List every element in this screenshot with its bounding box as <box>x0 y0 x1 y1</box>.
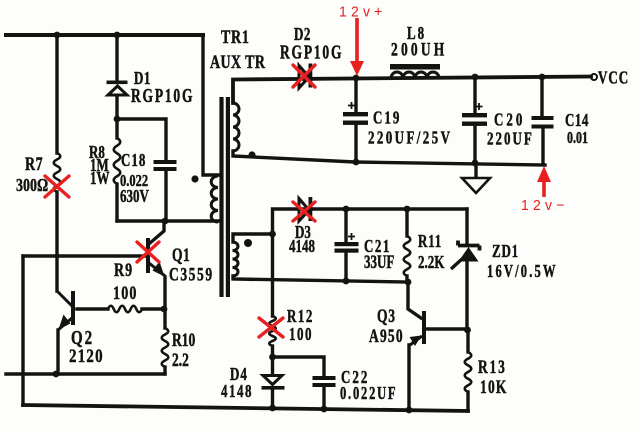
diode D2 RGP10G <box>299 64 312 89</box>
wire Q1 base line <box>23 254 146 257</box>
wire Q3 emitter down <box>407 345 410 410</box>
wire C19 bottom leg <box>354 125 357 161</box>
wire secondary1 top lead / 12V rail <box>233 77 591 104</box>
node C18 / primary bottom / Q1 collector <box>162 218 169 225</box>
svg-text:630V: 630V <box>120 187 149 206</box>
transistor Q1 C3559 <box>148 238 165 277</box>
resistor R8 1M 1W <box>114 138 121 184</box>
wire C21 top leg <box>344 209 347 242</box>
red arrow 12v- <box>537 166 551 197</box>
wire bottom rail <box>23 405 468 411</box>
node Q3 emitter rail <box>406 407 413 414</box>
wire D1 branch top <box>115 35 118 80</box>
transformer TR1 core <box>219 97 230 297</box>
wire Q3 base line <box>427 327 467 330</box>
wire C20 bottom leg <box>473 126 476 164</box>
node C20 top <box>472 74 479 81</box>
node R11 top <box>404 206 411 213</box>
red arrow 12v+ <box>350 18 364 76</box>
wire Q2 emitter down <box>56 330 59 374</box>
ground symbol <box>462 178 490 193</box>
svg-text:4148: 4148 <box>289 237 315 256</box>
node C14 top <box>539 74 546 81</box>
red X mark on D3 <box>293 202 315 221</box>
svg-text:AUX TR: AUX TR <box>210 51 266 73</box>
wire R7 branch top <box>55 35 58 153</box>
capacitor C18 0.022 630V <box>154 160 177 171</box>
svg-text:R9: R9 <box>114 259 133 281</box>
inductor L8 200UH <box>391 72 439 78</box>
svg-text:R7: R7 <box>25 153 43 175</box>
svg-text:10K: 10K <box>480 377 508 398</box>
svg-text:C3559: C3559 <box>169 263 214 285</box>
node top rail / R7 <box>54 32 61 39</box>
zener diode ZD1 16V/0.5W <box>451 241 480 270</box>
svg-text:ZD1: ZD1 <box>492 242 519 261</box>
wire R10 bottom <box>163 367 166 374</box>
wire D1 to junction <box>115 96 118 138</box>
wire top rail <box>6 33 203 37</box>
svg-text:C19: C19 <box>373 109 401 128</box>
svg-text:220UF: 220UF <box>487 130 534 150</box>
svg-text:100: 100 <box>289 325 313 344</box>
node Q2 emitter / rail <box>53 371 60 378</box>
wire R11 bottom leg <box>405 276 408 281</box>
wire C19 top leg <box>354 78 357 112</box>
node 12v+ junction <box>353 75 360 82</box>
resistor R13 10K <box>465 352 472 392</box>
svg-text:0.022UF: 0.022UF <box>340 384 397 404</box>
wire secondary1 bottom lead <box>233 151 545 165</box>
svg-text:TR1: TR1 <box>221 26 250 48</box>
wire mid vertical to R12 <box>271 234 274 316</box>
wire primary bottom lead <box>117 219 218 222</box>
transistor Q3 A950 <box>410 311 425 346</box>
wire ZD1 to base node <box>465 262 468 330</box>
resistor R9 100 <box>108 306 142 313</box>
svg-text:2120: 2120 <box>69 345 104 366</box>
wire C21 bottom leg <box>344 252 347 281</box>
wire C22 top leg <box>273 357 325 376</box>
transformer TR1 primary winding <box>211 176 218 222</box>
resistor R11 2.2K <box>404 236 411 276</box>
node R11 bottom / Q3 collector <box>405 279 412 286</box>
node D4 bottom rail <box>269 405 276 412</box>
svg-text:C20: C20 <box>494 111 525 131</box>
node C21 bottom <box>343 278 350 285</box>
node R9 / Q1 emitter <box>161 306 168 313</box>
node secondary2 phase dot <box>244 239 252 247</box>
svg-text:2.2K: 2.2K <box>418 253 445 272</box>
svg-text:33UF: 33UF <box>364 253 394 273</box>
svg-text:220UF/25V: 220UF/25V <box>368 129 452 149</box>
svg-text:4148: 4148 <box>221 382 253 401</box>
svg-text:1W: 1W <box>90 169 110 188</box>
svg-text:2.2: 2.2 <box>172 350 189 371</box>
red X mark on R7 <box>45 176 69 197</box>
svg-text:RGP10G: RGP10G <box>131 84 194 106</box>
diode D3 4148 <box>299 197 312 221</box>
diode D4 4148 <box>262 376 285 390</box>
node C19 bottom <box>353 159 360 166</box>
svg-text:C18: C18 <box>121 151 146 170</box>
wire node to R13 <box>466 330 469 352</box>
wire C22 bottom leg <box>322 387 325 408</box>
capacitor C19 220UF/25V <box>343 102 368 125</box>
transistor Q2 2120 <box>57 291 73 330</box>
wire C18 top leg <box>117 119 166 160</box>
node secondary1 phase dot <box>248 151 255 158</box>
wire C18 bottom leg <box>164 171 167 221</box>
svg-text:C14: C14 <box>565 111 589 130</box>
wire R9 to Q1 emitter line <box>142 307 165 310</box>
wire Q1 collector <box>150 221 164 243</box>
node C21 top <box>343 206 350 213</box>
wire Q2 emitter line <box>6 372 165 375</box>
svg-text:R13: R13 <box>478 357 507 378</box>
node primary phase dot <box>191 175 198 182</box>
wire Q3 collector <box>408 282 421 318</box>
wire Q1 emitter to R10 <box>163 277 166 328</box>
resistor R10 2.2 <box>162 328 169 367</box>
transformer TR1 secondary winding 1 <box>233 103 239 151</box>
wire R8 bottom <box>115 184 118 221</box>
node D1 / R8 / C18 <box>114 116 121 123</box>
svg-text:R10: R10 <box>172 330 195 351</box>
node Q3 base / ZD1 / R13 <box>464 327 471 334</box>
resistor R7 300ohm <box>54 153 61 192</box>
node R12 / D4 / C22 <box>269 354 276 361</box>
svg-text:12v+: 12v+ <box>339 4 387 20</box>
svg-text:Q3: Q3 <box>377 306 396 327</box>
svg-text:0.01: 0.01 <box>567 129 588 147</box>
red X mark on R12 <box>259 318 283 337</box>
svg-text:16V/0.5W: 16V/0.5W <box>487 262 558 282</box>
wire C14 top leg <box>540 77 543 116</box>
wire R11 top leg <box>405 209 408 236</box>
wire D4 bottom <box>271 389 274 408</box>
capacitor C14 0.01 <box>532 116 554 129</box>
wire R13 bottom <box>466 392 469 411</box>
wire ground stem <box>474 164 477 177</box>
svg-text:RGP10G: RGP10G <box>280 41 343 63</box>
wire D3 rail <box>273 209 468 234</box>
wire left vertical <box>21 256 24 405</box>
wire secondary2 top lead <box>233 234 273 242</box>
node C22 bottom rail <box>321 406 328 413</box>
svg-text:A950: A950 <box>369 326 404 347</box>
inductor L8 core bar <box>390 64 440 70</box>
svg-text:VCC: VCC <box>598 69 629 88</box>
wire ZD1 top leg <box>465 209 468 245</box>
svg-text:200UH: 200UH <box>391 38 447 60</box>
red X mark on Q1 <box>137 242 159 262</box>
VCC terminal <box>591 74 597 80</box>
diode D1 RGP10G <box>107 81 128 96</box>
wire R12 to D4 <box>271 346 274 374</box>
wire primary top lead <box>203 35 218 175</box>
svg-text:300Ω: 300Ω <box>16 177 48 196</box>
wire Q2 base to R9 <box>77 307 108 310</box>
wire C20 top leg <box>473 77 476 113</box>
svg-text:100: 100 <box>113 282 138 304</box>
node secondary2 / mid vertical <box>269 231 276 238</box>
node ground junction <box>472 160 479 167</box>
wire R7 to Q2 collector <box>55 192 58 291</box>
node top rail / D1 <box>114 32 121 39</box>
capacitor C20 220UF <box>462 103 487 126</box>
red X mark on D2 <box>293 65 315 87</box>
wire secondary2 bottom lead <box>233 276 408 282</box>
transformer TR1 secondary winding 2 <box>233 242 239 276</box>
capacitor C21 33UF <box>335 233 359 253</box>
svg-text:R11: R11 <box>418 232 442 251</box>
resistor R12 100 <box>269 316 276 346</box>
svg-text:R12: R12 <box>287 307 314 326</box>
capacitor C22 0.022UF <box>313 376 336 387</box>
svg-text:12v−: 12v− <box>521 198 569 214</box>
wire C14 bottom leg <box>541 129 544 163</box>
